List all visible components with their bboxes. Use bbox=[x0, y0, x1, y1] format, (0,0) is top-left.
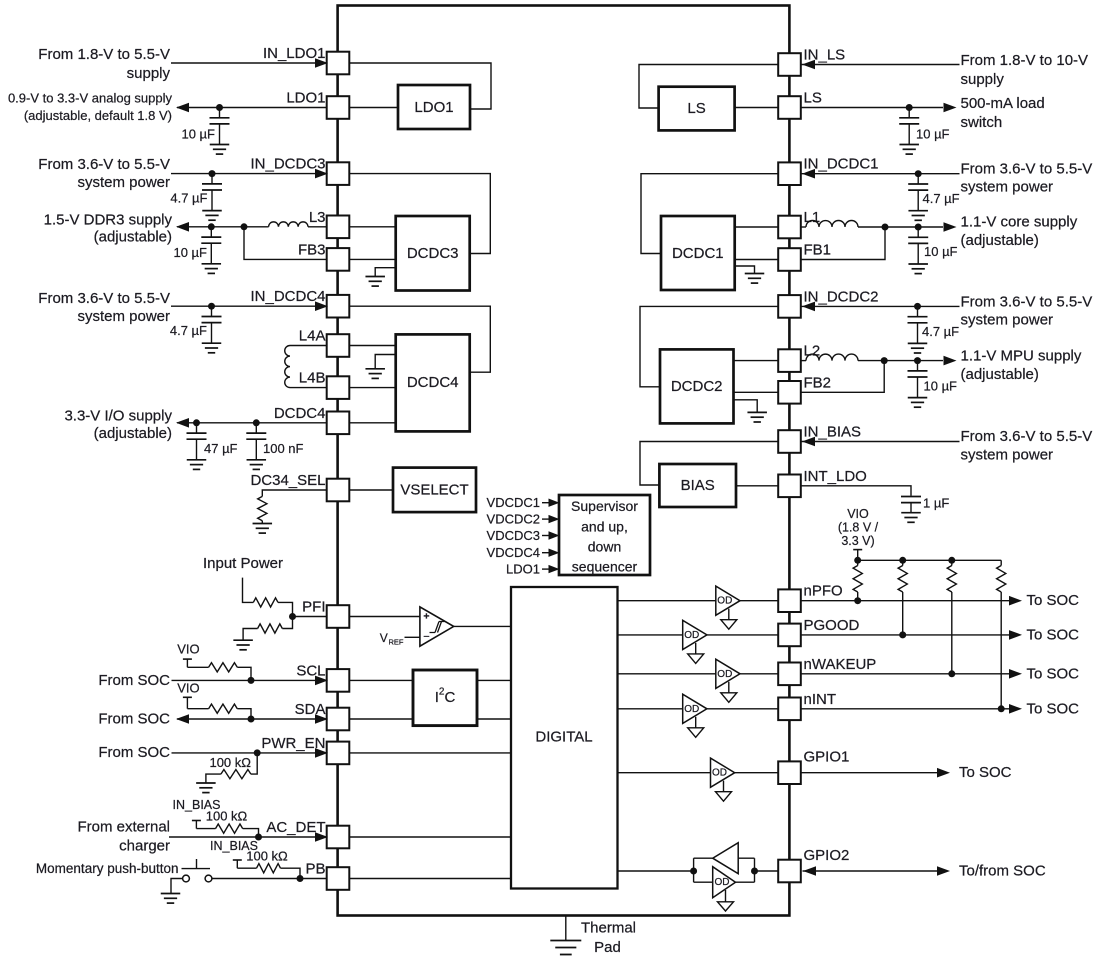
node nWAKEUP pull-up junction bbox=[948, 670, 955, 677]
wire SCL pullup to node bbox=[237, 667, 251, 680]
node PGOOD pull-up junction bbox=[899, 631, 906, 638]
resistor DC34_SEL pulldown bbox=[258, 496, 267, 520]
wire L4A pin to DCDC4 block bbox=[349, 345, 396, 347]
capacitor 10uF L3 bbox=[210, 227, 212, 237]
svg-text:100 kΩ: 100 kΩ bbox=[206, 809, 248, 824]
svg-text:3.3 V): 3.3 V) bbox=[841, 534, 874, 548]
wire DC34_SEL pin to VSELECT block bbox=[349, 489, 393, 491]
svg-text:VDCDC4: VDCDC4 bbox=[487, 545, 540, 560]
svg-text:IN_DCDC4: IN_DCDC4 bbox=[250, 288, 325, 305]
node L3 FB3 junction bbox=[241, 223, 248, 230]
svg-text:From 3.6-V to 5.5-V: From 3.6-V to 5.5-V bbox=[38, 290, 170, 307]
wire VIO to SCL resistor bbox=[187, 666, 208, 668]
node VIO bus junction 3 bbox=[948, 557, 955, 564]
wire From 3.6-V system power to IN_DCDC2 bbox=[801, 305, 960, 307]
pin PFI bbox=[327, 605, 350, 628]
op-amp comparator PFI bbox=[420, 607, 454, 646]
wire I2C to DIGITAL sda bbox=[477, 718, 511, 720]
pin L4A bbox=[327, 334, 350, 357]
wire L2 pin to DCDC2 block bbox=[734, 360, 779, 362]
svg-text:100 kΩ: 100 kΩ bbox=[209, 755, 251, 770]
node DCDC4 cap1 junction bbox=[193, 419, 200, 426]
svg-text:10 µF: 10 µF bbox=[924, 379, 958, 394]
svg-text:From 1.8-V to 10-V: From 1.8-V to 10-V bbox=[961, 52, 1089, 69]
wire AC_DET pullup to node bbox=[243, 829, 259, 837]
svg-text:system power: system power bbox=[961, 447, 1054, 464]
pin PGOOD bbox=[778, 624, 801, 647]
svg-text:LS: LS bbox=[804, 90, 822, 107]
svg-text:and up,: and up, bbox=[581, 519, 628, 535]
svg-text:1 µF: 1 µF bbox=[923, 496, 949, 511]
pin LDO1 bbox=[327, 96, 350, 119]
svg-text:DC34_SEL: DC34_SEL bbox=[250, 472, 325, 489]
svg-text:VSELECT: VSELECT bbox=[400, 482, 468, 499]
svg-text:Input Power: Input Power bbox=[203, 555, 283, 572]
wire VREF to comparator bbox=[405, 636, 420, 638]
node nINT pull-up junction bbox=[998, 705, 1005, 712]
wire FB3 pin to DCDC3 block bbox=[349, 258, 396, 260]
node VIO bus junction 2 bbox=[899, 557, 906, 564]
wire L4B pin to DCDC4 block bbox=[349, 387, 396, 389]
wire FB3 to L3 output bbox=[244, 227, 327, 260]
wire PWR_EN node to pulldown bbox=[251, 753, 257, 774]
svg-text:system power: system power bbox=[77, 308, 170, 325]
svg-text:47 µF: 47 µF bbox=[204, 441, 238, 456]
wire 1.5-V DDR3 supply from L3 bbox=[177, 226, 269, 228]
svg-text:IN_DCDC3: IN_DCDC3 bbox=[250, 156, 325, 173]
pin IN_LDO1 bbox=[327, 52, 350, 75]
wire Input Power to resistor bbox=[243, 578, 254, 603]
node PWR_EN junction bbox=[254, 749, 261, 756]
inductor L2 bbox=[806, 354, 858, 361]
svg-text:500-mA load: 500-mA load bbox=[961, 95, 1045, 112]
wire inductor to L4B bbox=[290, 387, 327, 389]
wire VIO pull-up bus bbox=[858, 559, 1002, 561]
resistor AC_DET pullup 100k bbox=[216, 824, 243, 833]
wire PFI node to lower resistor bbox=[282, 617, 292, 629]
wire From 3.6-V system power to IN_BIAS bbox=[801, 441, 960, 443]
wire GPIO1 to SOC bbox=[801, 772, 938, 774]
wire IN_BIAS to AC_DET resistor bbox=[196, 828, 215, 830]
wire L1 pin to DCDC1 block bbox=[735, 226, 779, 228]
wire IN_DCDC3 feedback to DCDC3 block bbox=[349, 174, 490, 254]
svg-text:1.1-V core supply: 1.1-V core supply bbox=[961, 214, 1078, 231]
pin IN_DCDC3 bbox=[327, 162, 350, 185]
svg-text:LS: LS bbox=[687, 100, 705, 117]
wire PB pullup to node bbox=[281, 868, 301, 878]
svg-text:3.3-V I/O supply: 3.3-V I/O supply bbox=[64, 408, 172, 425]
wire I2C to DIGITAL scl bbox=[477, 679, 511, 681]
svg-text:supply: supply bbox=[127, 65, 171, 82]
wire DIGITAL to GPIO1 buffer bbox=[618, 772, 779, 774]
wire PWR_EN pin to DIGITAL bbox=[349, 752, 511, 754]
svg-text:OD: OD bbox=[712, 768, 727, 779]
block BIAS bbox=[659, 464, 736, 507]
wire L1 to core supply bbox=[858, 226, 943, 228]
resistor PFI lower bbox=[258, 624, 283, 633]
resistor pull-up nPFO bbox=[853, 566, 862, 593]
svg-text:charger: charger bbox=[119, 837, 170, 854]
wire IN_BIAS to PB resistor bbox=[237, 867, 256, 869]
node IN_DCDC3 cap junction bbox=[209, 170, 216, 177]
node L1 cap junction bbox=[915, 224, 922, 231]
svg-text:From 3.6-V to 5.5-V: From 3.6-V to 5.5-V bbox=[38, 156, 170, 173]
node L2 cap junction bbox=[914, 357, 921, 364]
svg-text:system power: system power bbox=[961, 312, 1054, 329]
pin IN_BIAS bbox=[778, 430, 801, 453]
buffer OD PGOOD bbox=[683, 620, 707, 649]
pin GPIO2 bbox=[778, 860, 801, 883]
capacitor 4.7uF IN_DCDC2 bbox=[917, 306, 919, 316]
ground PFI divider bbox=[233, 639, 253, 641]
wire GPIO2 to SOC bbox=[803, 870, 938, 872]
wire INT_LDO to cap bbox=[801, 486, 912, 496]
wire PFI node to pin bbox=[293, 616, 328, 618]
svg-text:IN_LS: IN_LS bbox=[804, 47, 846, 64]
svg-text:0.9-V to 3.3-V analog supply: 0.9-V to 3.3-V analog supply bbox=[8, 91, 173, 106]
svg-text:DCDC4: DCDC4 bbox=[407, 374, 459, 391]
resistor pull-up PGOOD bbox=[898, 566, 907, 593]
svg-text:down: down bbox=[588, 539, 621, 555]
svg-text:FB2: FB2 bbox=[804, 374, 832, 391]
svg-text:DCDC3: DCDC3 bbox=[407, 245, 459, 262]
svg-text:DCDC1: DCDC1 bbox=[672, 245, 724, 262]
svg-text:To SOC: To SOC bbox=[1027, 626, 1080, 643]
wire LS block to LS pin bbox=[735, 107, 779, 109]
wire From 1.8-V supply to IN_LDO1 bbox=[171, 62, 327, 64]
svg-text:switch: switch bbox=[961, 114, 1003, 131]
svg-text:GPIO2: GPIO2 bbox=[804, 847, 850, 864]
svg-text:PB: PB bbox=[305, 861, 325, 878]
ground DCDC3 bbox=[375, 268, 396, 277]
wire DIGITAL to GPIO2 pair bbox=[618, 870, 694, 872]
IC chip outline bbox=[338, 6, 790, 916]
ground push-button bbox=[161, 893, 181, 895]
resistor SCL pullup bbox=[209, 663, 238, 672]
pin PB bbox=[327, 867, 350, 890]
buffer OD nWAKEUP bbox=[716, 659, 740, 688]
resistor PFI upper bbox=[253, 598, 278, 607]
wire resistor to PFI node bbox=[278, 602, 293, 616]
wire SDA pin to I2C block bbox=[349, 718, 413, 720]
wire PB pin to DIGITAL bbox=[349, 878, 511, 880]
resistor SDA pullup bbox=[209, 704, 238, 713]
node L2 FB2 junction bbox=[881, 357, 888, 364]
wire IN_DCDC4 feedback to DCDC4 block bbox=[349, 306, 490, 372]
svg-text:Supervisor: Supervisor bbox=[571, 498, 638, 514]
ground PWR_EN pulldown bbox=[196, 782, 216, 784]
svg-text:4.7 µF: 4.7 µF bbox=[170, 323, 207, 338]
svg-text:From 3.6-V to 5.5-V: From 3.6-V to 5.5-V bbox=[961, 294, 1093, 311]
wire push-button to ground bbox=[171, 879, 183, 894]
ground DC34_SEL bbox=[253, 523, 272, 525]
svg-text:VIO: VIO bbox=[847, 507, 869, 521]
capacitor 10uF L2 bbox=[917, 361, 919, 371]
wire IN_LDO1 feedback to LDO1 block bbox=[349, 63, 491, 109]
capacitor 47uF DCDC4 bbox=[196, 423, 198, 433]
wire IN_BIAS feedback to BIAS block bbox=[640, 442, 779, 486]
svg-text:VDCDC1: VDCDC1 bbox=[487, 495, 540, 510]
ground DCDC1 bbox=[735, 266, 755, 274]
svg-text:4.7 µF: 4.7 µF bbox=[170, 191, 207, 206]
pin FB3 bbox=[327, 248, 350, 271]
inductor L1 bbox=[806, 221, 858, 228]
svg-text:100 nF: 100 nF bbox=[263, 441, 304, 456]
pin L2 bbox=[778, 349, 801, 372]
wire LDO1 output bbox=[177, 107, 327, 109]
block LDO1 bbox=[398, 85, 470, 129]
wire From 3.6-V system power to IN_DCDC3 bbox=[171, 173, 327, 175]
wire SDA pullup to node bbox=[237, 709, 251, 719]
svg-text:OD: OD bbox=[684, 704, 699, 715]
node SDA junction bbox=[248, 716, 255, 723]
svg-text:1.1-V MPU supply: 1.1-V MPU supply bbox=[961, 348, 1082, 365]
node GPIO2 right junction bbox=[751, 868, 758, 875]
wire IN_DCDC1 feedback to DCDC1 block bbox=[641, 174, 779, 254]
capacitor 10uF LDO1 bbox=[219, 108, 221, 118]
svg-text:LDO1: LDO1 bbox=[286, 90, 325, 107]
wire DIGITAL to PGOOD buffer bbox=[618, 634, 779, 636]
pin FB1 bbox=[778, 248, 801, 271]
node DCDC4 cap2 junction bbox=[253, 419, 260, 426]
svg-text:(adjustable): (adjustable) bbox=[961, 232, 1039, 249]
pin SDA bbox=[327, 708, 350, 731]
capacitor 100nF DCDC4 bbox=[255, 423, 257, 433]
ground Thermal Pad bbox=[565, 916, 567, 941]
capacitor 4.7uF IN_DCDC4 bbox=[211, 306, 213, 316]
resistor PB pullup 100k bbox=[257, 864, 281, 873]
pin L3 bbox=[327, 216, 350, 239]
svg-text:To SOC: To SOC bbox=[1027, 700, 1080, 717]
svg-text:4.7 µF: 4.7 µF bbox=[923, 191, 960, 206]
svg-text:1.5-V DDR3 supply: 1.5-V DDR3 supply bbox=[44, 212, 173, 229]
pin nWAKEUP bbox=[778, 663, 801, 686]
svg-text:LDO1: LDO1 bbox=[414, 99, 453, 116]
block VSELECT bbox=[393, 468, 476, 512]
resistor PWR_EN pulldown 100k bbox=[221, 770, 251, 779]
pin DCDC4 bbox=[327, 412, 350, 435]
node L3 cap junction bbox=[208, 223, 215, 230]
svg-text:(adjustable, default 1.8 V): (adjustable, default 1.8 V) bbox=[24, 108, 172, 123]
wire FB1 to L1 output bbox=[801, 227, 886, 260]
resistor pull-up nWAKEUP bbox=[947, 566, 956, 593]
node PB junction bbox=[297, 875, 304, 882]
wire DIGITAL to nWAKEUP buffer bbox=[618, 673, 779, 675]
svg-text:L3: L3 bbox=[309, 209, 326, 226]
svg-text:Momentary push-button: Momentary push-button bbox=[36, 861, 179, 876]
wire VIO to SDA resistor bbox=[187, 708, 208, 710]
svg-text:OD: OD bbox=[684, 630, 699, 641]
svg-text:From SOC: From SOC bbox=[98, 672, 170, 689]
wire 3.3-V IO supply from DCDC4 bbox=[177, 422, 327, 424]
wire From SOC to PWR_EN bbox=[172, 752, 328, 754]
wire FB2 to L2 output bbox=[801, 361, 885, 393]
wire pulldown to ground bbox=[206, 774, 221, 783]
ground 1uF INT_LDO bbox=[901, 512, 921, 514]
pin AC_DET bbox=[327, 826, 350, 849]
pin FB2 bbox=[778, 381, 801, 404]
wire L2 to MPU supply bbox=[858, 360, 943, 362]
block DCDC4 bbox=[396, 334, 470, 431]
wire LDO1 pin to LDO1 block bbox=[349, 107, 398, 109]
node IN_DCDC4 cap junction bbox=[208, 303, 215, 310]
wire GPIO2 pair to pin bbox=[755, 870, 779, 872]
pin PWR_EN bbox=[327, 742, 350, 765]
svg-text:nPFO: nPFO bbox=[804, 583, 843, 600]
pin SCL bbox=[327, 669, 350, 692]
wire LS output to load switch bbox=[801, 107, 944, 109]
svg-text:VIO: VIO bbox=[177, 642, 199, 657]
svg-text:VDCDC2: VDCDC2 bbox=[487, 512, 540, 527]
svg-text:I2C: I2C bbox=[435, 687, 456, 707]
node LS cap junction bbox=[906, 104, 913, 111]
capacitor 1uF INT_LDO bbox=[901, 496, 921, 498]
wire DC34_SEL pulldown bbox=[262, 490, 327, 496]
svg-text:VIO: VIO bbox=[177, 681, 199, 696]
wire L4A to inductor bbox=[290, 345, 327, 347]
svg-text:To/from SOC: To/from SOC bbox=[959, 863, 1046, 880]
svg-text:SDA: SDA bbox=[295, 701, 326, 718]
wire From external charger to AC_DET bbox=[169, 836, 327, 838]
node IN_DCDC1 cap junction bbox=[915, 170, 922, 177]
capacitor 4.7uF IN_DCDC3 bbox=[211, 174, 213, 184]
svg-text:FB1: FB1 bbox=[804, 242, 832, 259]
svg-text:DCDC4: DCDC4 bbox=[274, 405, 326, 422]
resistor pull-up nINT bbox=[997, 566, 1006, 593]
wire SCL pin to I2C block bbox=[349, 679, 413, 681]
svg-text:10 µF: 10 µF bbox=[916, 126, 950, 141]
wire comparator output to DIGITAL bbox=[454, 625, 511, 627]
node AC_DET junction bbox=[255, 834, 262, 841]
block I2C bbox=[413, 670, 477, 726]
svg-text:BIAS: BIAS bbox=[681, 477, 715, 494]
svg-text:From 3.6-V to 5.5-V: From 3.6-V to 5.5-V bbox=[961, 428, 1093, 445]
wire nWAKEUP to SOC bbox=[801, 673, 1010, 675]
buffer OD nPFO bbox=[716, 586, 740, 615]
svg-text:4.7 µF: 4.7 µF bbox=[922, 324, 959, 339]
svg-text:−: − bbox=[423, 631, 429, 643]
block LS bbox=[659, 87, 735, 131]
svg-text:OD: OD bbox=[717, 669, 732, 680]
svg-text:(adjustable): (adjustable) bbox=[94, 425, 172, 442]
block DCDC2 bbox=[660, 349, 734, 423]
ground DCDC4 bbox=[375, 355, 396, 369]
svg-text:Pad: Pad bbox=[594, 939, 621, 956]
node nPFO pull-up junction bbox=[854, 597, 861, 604]
block Supervisor and up down sequencer bbox=[559, 495, 650, 575]
wire IN_LS feedback to LS block bbox=[639, 65, 779, 109]
pin nPFO bbox=[778, 589, 801, 612]
svg-text:PGOOD: PGOOD bbox=[804, 617, 860, 634]
svg-text:From 3.6-V to 5.5-V: From 3.6-V to 5.5-V bbox=[961, 161, 1093, 178]
svg-text:GPIO1: GPIO1 bbox=[804, 749, 850, 766]
wire L3 pin to DCDC3 block bbox=[349, 226, 396, 228]
pin INT_LDO bbox=[778, 475, 801, 498]
wire nINT to SOC bbox=[801, 708, 1010, 710]
wire From SOC to SDA bbox=[177, 718, 327, 720]
pin nINT bbox=[778, 698, 801, 721]
wire FB1 pin to DCDC1 block bbox=[735, 259, 779, 261]
svg-text:OD: OD bbox=[715, 877, 730, 888]
wire From 3.6-V system power to IN_DCDC4 bbox=[171, 305, 327, 307]
svg-text:PFI: PFI bbox=[302, 599, 325, 616]
pin DC34_SEL bbox=[327, 479, 350, 502]
svg-text:VDCDC3: VDCDC3 bbox=[487, 528, 540, 543]
wire nPFO to SOC bbox=[801, 600, 1010, 602]
svg-text:system power: system power bbox=[961, 179, 1054, 196]
buffer pair GPIO2 bbox=[693, 858, 695, 882]
svg-text:nINT: nINT bbox=[804, 691, 837, 708]
svg-text:(1.8 V /: (1.8 V / bbox=[838, 521, 879, 535]
inductor L3 bbox=[269, 222, 308, 227]
wire lower resistor to ground bbox=[243, 629, 258, 641]
pin GPIO1 bbox=[778, 761, 801, 784]
wire BIAS block to INT_LDO pin bbox=[736, 485, 779, 487]
svg-text:FB3: FB3 bbox=[298, 241, 326, 258]
wire From 3.6-V system power to IN_DCDC1 bbox=[801, 173, 960, 175]
wire From 1.8-V to 10-V supply to IN_LS bbox=[801, 64, 960, 66]
svg-text:supply: supply bbox=[961, 71, 1005, 88]
block DIGITAL bbox=[511, 587, 618, 889]
node IN_DCDC2 cap junction bbox=[914, 303, 921, 310]
svg-text:sequencer: sequencer bbox=[572, 559, 638, 575]
block DCDC1 bbox=[661, 216, 735, 290]
wire AC_DET pin to DIGITAL bbox=[349, 836, 511, 838]
wire PFI pin to comparator bbox=[349, 616, 420, 618]
buffer OD nINT bbox=[683, 694, 707, 723]
wire PGOOD to SOC bbox=[801, 634, 1010, 636]
wire DIGITAL to nINT buffer bbox=[618, 708, 779, 710]
svg-text:To SOC: To SOC bbox=[1027, 592, 1080, 609]
pin LS bbox=[778, 96, 801, 119]
pin L1 bbox=[778, 216, 801, 239]
svg-text:10 µF: 10 µF bbox=[924, 244, 958, 259]
svg-text:100 kΩ: 100 kΩ bbox=[246, 848, 288, 863]
pin IN_DCDC2 bbox=[778, 295, 801, 318]
svg-text:INT_LDO: INT_LDO bbox=[804, 468, 867, 485]
svg-text:(adjustable): (adjustable) bbox=[961, 366, 1039, 383]
inductor L4A L4B bbox=[285, 346, 290, 388]
svg-text:From SOC: From SOC bbox=[98, 744, 170, 761]
node GPIO2 left junction bbox=[690, 868, 697, 875]
svg-text:REF: REF bbox=[389, 637, 404, 646]
svg-text:To SOC: To SOC bbox=[1027, 665, 1080, 682]
node SCL junction bbox=[248, 677, 255, 684]
node L1 FB1 junction bbox=[882, 224, 889, 231]
wire push-button to PB pin bbox=[212, 878, 327, 880]
svg-text:OD: OD bbox=[717, 596, 732, 607]
svg-text:DIGITAL: DIGITAL bbox=[535, 729, 592, 746]
pin IN_DCDC4 bbox=[327, 295, 350, 318]
node PFI junction bbox=[289, 613, 296, 620]
capacitor 10uF L1 bbox=[917, 227, 919, 237]
wire IN_DCDC2 feedback to DCDC2 block bbox=[640, 306, 779, 386]
switch momentary push-button bbox=[182, 868, 211, 870]
node VIO bus junction 1 bbox=[854, 557, 861, 564]
buffer OD GPIO1 bbox=[711, 758, 735, 787]
node LDO1 cap junction bbox=[216, 104, 223, 111]
svg-text:LDO1: LDO1 bbox=[506, 562, 540, 577]
pin IN_LS bbox=[778, 53, 801, 76]
svg-text:10 µF: 10 µF bbox=[181, 127, 215, 142]
svg-text:L4B: L4B bbox=[299, 370, 326, 387]
wire DIGITAL to nPFO buffer bbox=[618, 600, 779, 602]
svg-text:From SOC: From SOC bbox=[98, 711, 170, 728]
svg-text:10 µF: 10 µF bbox=[173, 245, 207, 260]
svg-text:To SOC: To SOC bbox=[959, 764, 1012, 781]
capacitor 10uF LS bbox=[908, 108, 910, 118]
ground DCDC2 bbox=[734, 400, 758, 413]
